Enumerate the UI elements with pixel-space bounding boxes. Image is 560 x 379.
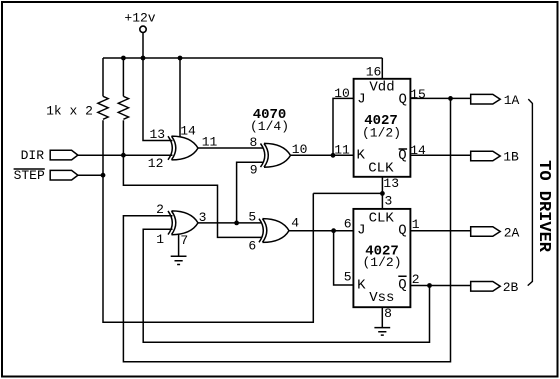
svg-text:13: 13: [383, 176, 399, 191]
svg-text:(1/2): (1/2): [362, 125, 401, 140]
svg-text:STEP: STEP: [14, 168, 45, 183]
svg-text:(1/4): (1/4): [250, 119, 289, 134]
svg-text:9: 9: [250, 163, 258, 178]
svg-text:DIR: DIR: [21, 148, 45, 163]
svg-text:J: J: [357, 222, 365, 238]
svg-text:3: 3: [199, 210, 207, 225]
svg-text:Q: Q: [398, 148, 406, 164]
svg-text:6: 6: [344, 216, 352, 231]
svg-text:(1/2): (1/2): [362, 255, 401, 270]
svg-text:3: 3: [384, 194, 392, 209]
svg-text:10: 10: [334, 86, 350, 101]
svg-text:8: 8: [384, 306, 392, 321]
svg-text:13: 13: [149, 127, 165, 142]
svg-text:2B: 2B: [503, 280, 519, 295]
svg-text:5: 5: [344, 270, 352, 285]
svg-text:2: 2: [156, 202, 164, 217]
svg-text:1: 1: [156, 232, 164, 247]
svg-text:1A: 1A: [504, 93, 520, 108]
svg-text:Q: Q: [398, 277, 406, 293]
svg-text:Q: Q: [398, 91, 406, 107]
svg-text:1k x 2: 1k x 2: [46, 103, 93, 118]
svg-text:Vss: Vss: [369, 290, 394, 306]
svg-text:14: 14: [180, 123, 196, 138]
svg-text:CLK: CLK: [368, 160, 394, 176]
svg-text:15: 15: [410, 87, 426, 102]
svg-text:11: 11: [202, 135, 218, 150]
svg-text:+12v: +12v: [124, 11, 155, 26]
svg-text:K: K: [356, 148, 365, 164]
svg-text:TO DRIVER: TO DRIVER: [534, 160, 553, 253]
svg-text:2: 2: [412, 272, 420, 287]
svg-text:5: 5: [248, 210, 256, 225]
svg-text:8: 8: [249, 135, 257, 150]
svg-text:10: 10: [292, 142, 308, 157]
svg-text:CLK: CLK: [369, 211, 395, 227]
svg-text:1B: 1B: [503, 150, 519, 165]
svg-text:K: K: [357, 278, 366, 294]
svg-text:1: 1: [412, 217, 420, 232]
svg-text:2A: 2A: [504, 226, 520, 241]
svg-text:Vdd: Vdd: [369, 79, 394, 95]
svg-text:Q: Q: [398, 222, 406, 238]
svg-text:J: J: [357, 91, 365, 107]
svg-text:14: 14: [410, 143, 426, 158]
svg-text:6: 6: [248, 238, 256, 253]
svg-text:11: 11: [334, 142, 350, 157]
svg-text:12: 12: [148, 156, 164, 171]
svg-text:16: 16: [366, 64, 382, 79]
svg-text:4: 4: [291, 216, 299, 231]
svg-text:7: 7: [180, 233, 188, 248]
